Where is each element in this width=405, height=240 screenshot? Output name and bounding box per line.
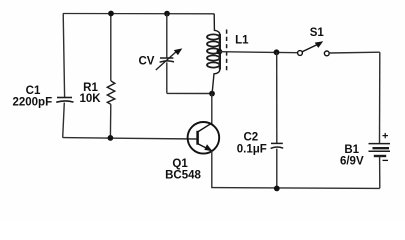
- svg-text:CV: CV: [139, 56, 155, 68]
- switch S1: [298, 41, 330, 56]
- svg-text:C1: C1: [26, 85, 41, 97]
- node junction coil tap: [217, 49, 223, 55]
- node junction top CV: [164, 11, 170, 17]
- battery plus sign: [383, 133, 389, 138]
- svg-text:0.1μF: 0.1μF: [237, 143, 267, 155]
- svg-text:Q1: Q1: [172, 158, 188, 170]
- svg-text:10K: 10K: [79, 93, 101, 105]
- svg-text:C2: C2: [243, 131, 258, 143]
- battery B1: [369, 144, 391, 156]
- wire battery to bottom: [379, 156, 381, 188]
- transistor Q1: [188, 122, 220, 154]
- inductor L1: [207, 14, 220, 94]
- wire collector vertical: [211, 94, 213, 123]
- svg-text:BC548: BC548: [165, 169, 201, 181]
- capacitor C2: [271, 52, 284, 188]
- svg-text:L1: L1: [235, 35, 249, 47]
- svg-text:6/9V: 6/9V: [340, 156, 364, 168]
- L1 core dashed line: [226, 30, 228, 71]
- svg-text:S1: S1: [310, 27, 325, 39]
- battery minus sign: [383, 159, 389, 161]
- node junction bottom R1: [108, 135, 114, 141]
- svg-text:2200pF: 2200pF: [12, 97, 52, 109]
- wire tap to switch: [219, 52, 297, 53]
- wire CV bottom to collector node: [167, 92, 212, 94]
- node junction C2 bottom: [274, 186, 280, 192]
- node junction C2 top: [274, 49, 280, 55]
- node junction top R1: [108, 11, 114, 17]
- svg-text:B1: B1: [344, 144, 359, 156]
- wire top horizontal: [63, 13, 214, 15]
- wire switch to right corner: [329, 51, 380, 54]
- capacitor C1: [56, 14, 73, 138]
- wire emitter vertical: [211, 151, 213, 188]
- wire right vertical to battery: [379, 52, 381, 143]
- wire bottom horizontal: [211, 187, 379, 190]
- wire bottom-left (base wire): [63, 138, 198, 139]
- resistor R1: [107, 14, 115, 138]
- variable capacitor CV: [156, 14, 183, 94]
- node junction collector: [209, 91, 215, 97]
